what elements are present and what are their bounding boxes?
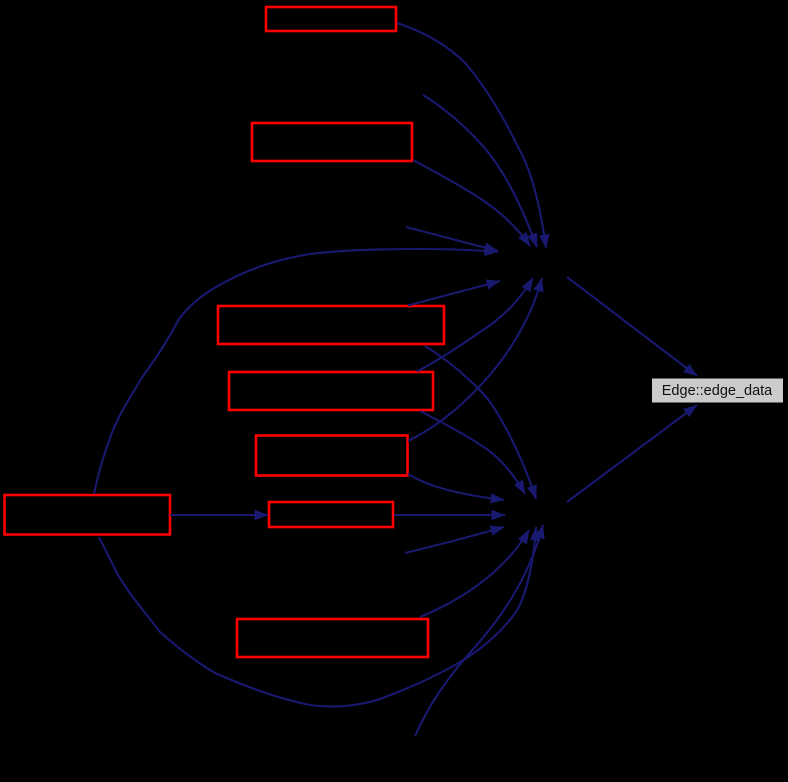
node box7 (left caller) xyxy=(5,495,171,535)
svg-text:Edge::edge_data: Edge::edge_data xyxy=(662,383,773,399)
node box5 xyxy=(256,436,408,476)
edge box7 -> L (big bottom arc) xyxy=(99,527,536,707)
edge box5 -> U xyxy=(408,278,542,441)
edge box5 -> L xyxy=(408,474,504,500)
edge I4 -> L xyxy=(415,525,543,736)
edge box1 -> U xyxy=(397,23,546,248)
edge box2 -> U xyxy=(413,160,530,246)
edge I3 -> L xyxy=(405,527,504,553)
edge U -> Edge::edge_data xyxy=(567,277,697,376)
edge box3 -> L xyxy=(425,346,536,499)
node box3 xyxy=(218,306,444,344)
edge box6 -> L xyxy=(394,514,505,516)
edge box7 -> box6 xyxy=(170,514,268,516)
node box8 (bottom caller) xyxy=(237,619,428,657)
node box1 (top caller) xyxy=(266,7,396,31)
edge box4 -> L xyxy=(420,411,525,494)
node box2 xyxy=(252,123,412,161)
edge box7 -> U (big left arc) xyxy=(94,249,498,494)
node Edge::edge_data (gray) xyxy=(652,379,783,403)
edge box4 -> U xyxy=(417,278,533,372)
edge L -> Edge::edge_data xyxy=(567,405,697,502)
node box4 xyxy=(229,372,433,410)
node box6 xyxy=(269,502,393,527)
edge box8 -> L xyxy=(420,530,529,617)
edge I2 -> U xyxy=(406,227,498,251)
edge I1 -> U xyxy=(423,95,537,247)
edge box3 -> U xyxy=(408,281,500,306)
